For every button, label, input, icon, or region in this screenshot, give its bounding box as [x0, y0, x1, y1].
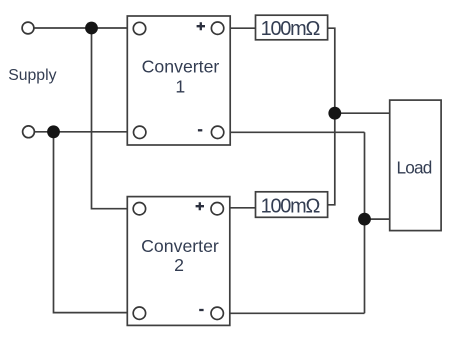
wire R1 output down to R2 output (shared + bus) [328, 28, 335, 205]
junction node N [358, 213, 371, 226]
U1 pin out- [211, 126, 223, 138]
U1 pin out+ [211, 22, 223, 34]
svg-text:2: 2 [174, 255, 184, 275]
wire converter 2 + output to resistor R2 [224, 207, 256, 209]
wire converter 1 + output to resistor R1 [224, 27, 256, 29]
U1 pin in+ [133, 22, 145, 34]
svg-text:100mΩ: 100mΩ [261, 18, 321, 40]
svg-text:Converter: Converter [142, 57, 220, 77]
U2 pin in+ [133, 203, 145, 215]
U2 plus sign [196, 202, 204, 210]
wire supply bottom to converter 1 input - [34, 131, 133, 133]
wire node P to load [335, 112, 390, 114]
junction A [85, 22, 98, 35]
load box [390, 100, 441, 231]
U2 pin in- [133, 307, 145, 319]
wire node N to load [365, 218, 390, 220]
U2 pin out- [211, 307, 223, 319]
junction B [47, 125, 60, 138]
supply terminal top [22, 22, 34, 34]
wire converter 2 - output to minus bus [224, 312, 365, 314]
svg-text:Load: Load [396, 158, 431, 178]
U2 pin out+ [211, 203, 223, 215]
junction node P [328, 107, 341, 120]
svg-text:Converter: Converter [141, 236, 219, 256]
svg-text:100mΩ: 100mΩ [261, 196, 321, 218]
supply terminal bottom [23, 126, 35, 138]
wire converter 1 - output to minus bus [224, 131, 365, 133]
U2 minus sign [199, 309, 203, 311]
converter U1 box [127, 16, 230, 145]
wire supply top to converter 1 input + [34, 27, 133, 29]
wire junction B down to converter 2 input - [54, 132, 133, 313]
wire minus bus vertical [364, 132, 366, 313]
wire junction A down to converter 2 input + [92, 28, 134, 209]
converter U2 box [127, 197, 230, 326]
svg-text:1: 1 [175, 76, 185, 96]
resistor R1 box [256, 15, 328, 40]
U1 minus sign [198, 129, 202, 131]
svg-text:Supply: Supply [8, 67, 56, 84]
U1 plus sign [197, 22, 205, 30]
resistor R2 box [256, 192, 328, 218]
U1 pin in- [134, 126, 146, 138]
